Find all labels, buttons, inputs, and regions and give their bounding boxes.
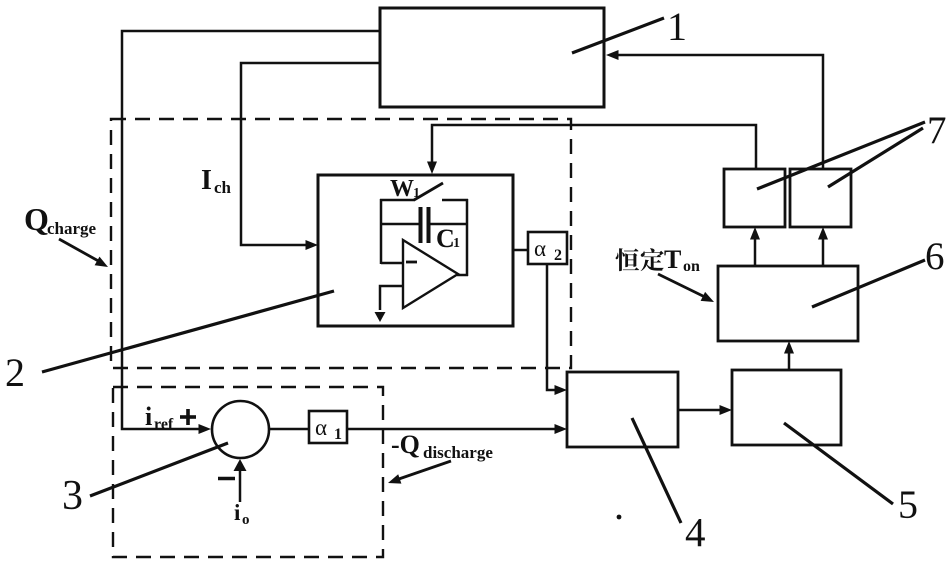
svg-text:1: 1	[453, 236, 460, 251]
block 5	[732, 370, 841, 445]
wire iref from block1 to summer	[122, 31, 380, 429]
switch W1 blade	[414, 183, 443, 200]
wire alpha1 to block4	[347, 428, 561, 431]
svg-text:7: 7	[927, 109, 947, 152]
svg-text:4: 4	[685, 509, 706, 555]
numeral 6 leader	[812, 260, 925, 307]
wire feedback top left	[380, 199, 415, 202]
numeral 7 leader b	[828, 128, 923, 187]
summer minus sign	[218, 477, 235, 480]
svg-text:2: 2	[554, 247, 562, 264]
stray dot mark	[617, 515, 622, 520]
wire inverting input	[381, 262, 403, 265]
wire capacitor right lead	[430, 223, 467, 226]
wire ground stub	[380, 286, 403, 310]
wire io into summer	[239, 466, 242, 502]
wire summer to alpha1	[270, 428, 309, 431]
lower dashed box Qdischarge	[113, 387, 383, 557]
svg-text:W: W	[390, 176, 414, 202]
svg-text:-Q: -Q	[391, 430, 420, 459]
numeral 3 leader	[90, 443, 228, 496]
svg-text:discharge: discharge	[423, 443, 493, 462]
svg-text:i: i	[145, 402, 152, 431]
block 2 integrator box	[318, 175, 513, 326]
wire switch-control from block7a to integrator	[432, 125, 756, 169]
svg-text:I: I	[201, 165, 212, 196]
svg-text:5: 5	[898, 482, 918, 527]
svg-text:i: i	[234, 500, 241, 525]
numeral 2 leader	[42, 291, 334, 372]
svg-text:1: 1	[334, 426, 342, 443]
op-amp U1	[403, 240, 458, 308]
numeral 7 leader a	[757, 122, 925, 189]
op-amp inverting input minus	[406, 261, 417, 264]
wire op-amp output to feedback	[457, 274, 468, 277]
Qdischarge pointer arrow	[393, 461, 451, 481]
block 7b driver	[790, 169, 851, 227]
svg-text:ref: ref	[154, 416, 174, 433]
svg-text:on: on	[683, 258, 700, 275]
Ton pointer arrow to block6	[658, 274, 709, 299]
numeral 4 leader	[632, 418, 681, 523]
svg-text:C: C	[436, 224, 455, 253]
capacitor C1 left plate	[419, 207, 423, 243]
block 7a driver	[724, 169, 785, 227]
numeral 5 leader	[784, 423, 893, 504]
wire integrator output to alpha2	[513, 249, 528, 252]
svg-text:ch: ch	[214, 178, 232, 197]
numeral 1 leader	[572, 18, 664, 53]
upper dashed box Qcharge	[111, 119, 571, 368]
svg-text:charge: charge	[47, 219, 97, 238]
wire feedback left branch	[380, 199, 383, 264]
svg-text:T: T	[664, 245, 681, 274]
block 1 (converter power stage)	[380, 8, 604, 107]
wire block6 to block7a	[754, 233, 757, 266]
wire block6 to block7b	[822, 233, 825, 266]
wire feedback right branch	[466, 199, 469, 276]
gain block alpha1	[309, 411, 347, 443]
block 6 (constant Ton timer)	[718, 266, 858, 341]
svg-text:o: o	[242, 512, 250, 528]
wire alpha2 to block4	[547, 264, 561, 390]
Qcharge pointer arrow	[59, 239, 102, 263]
svg-text:α: α	[534, 236, 546, 261]
wire capacitor left lead	[381, 223, 419, 226]
ground arrow	[375, 312, 386, 322]
block 4	[567, 372, 678, 447]
svg-text:1: 1	[667, 4, 687, 49]
wire block4 to block5	[678, 409, 726, 412]
svg-text:1: 1	[413, 186, 420, 201]
wire block5 to block6	[788, 347, 791, 370]
svg-text:2: 2	[5, 350, 25, 395]
gain block alpha2	[528, 232, 567, 264]
capacitor C1 right plate	[427, 207, 431, 243]
wire feedback top right	[442, 199, 468, 202]
svg-text:3: 3	[62, 473, 83, 519]
svg-text:α: α	[315, 415, 327, 440]
wire feedback from block7b to block1	[612, 55, 823, 169]
label heng-ding Ton	[616, 248, 664, 271]
svg-text:6: 6	[925, 235, 945, 278]
summing junction node	[212, 401, 269, 458]
svg-text:Q: Q	[24, 201, 49, 237]
wire Ich from block1 to integrator	[241, 63, 380, 245]
